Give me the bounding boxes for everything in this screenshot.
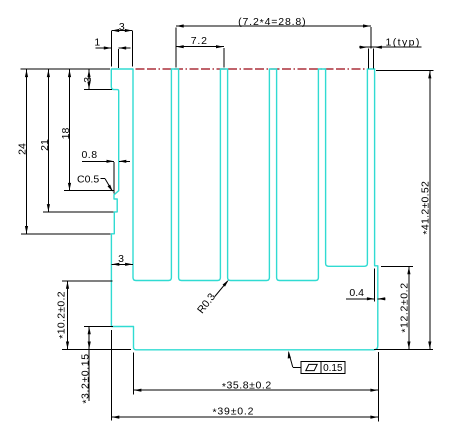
dim *35.8±0.2 (134, 352, 379, 422)
svg-text:(7.2*4=28.8): (7.2*4=28.8) (238, 16, 306, 29)
dim 24 (17, 69, 111, 234)
dim 0.4 (fin to edge step) (346, 269, 386, 302)
svg-text:3: 3 (118, 253, 124, 265)
dim 7.2 (fin pitch) (176, 28, 224, 68)
svg-text:1(typ): 1(typ) (386, 36, 421, 48)
dim 3 (tooth width, top) (111, 21, 132, 67)
svg-text:0.8: 0.8 (81, 149, 97, 161)
shared bottom-right extension (374, 348, 433, 350)
flatness feature control frame 0.15 (287, 351, 345, 375)
svg-text:*3.2±0.15: *3.2±0.15 (79, 353, 92, 403)
heatsink profile outline (111, 69, 378, 350)
dim 21 (39, 69, 114, 212)
svg-text:*10.2±0.2: *10.2±0.2 (56, 291, 69, 339)
svg-text:21: 21 (39, 139, 51, 151)
dim 3 (tooth height, left vertical) (21, 69, 113, 90)
leader R0.3 slot corner radius (195, 279, 230, 316)
dim *10.2±0.2 (56, 281, 131, 349)
svg-text:18: 18 (60, 128, 72, 140)
dim *3.2±0.15 (79, 326, 113, 403)
svg-text:*12.2±0.2: *12.2±0.2 (398, 282, 411, 332)
dim (7.2*4=28.8) overall fin span (176, 16, 371, 49)
dim 0.8 (wall thickness at groove) (81, 149, 130, 194)
svg-text:C0.5: C0.5 (77, 174, 99, 186)
dim 18 (60, 69, 114, 190)
dim 1(typ) fin thickness (359, 36, 422, 68)
dim *12.2±0.2 (381, 266, 413, 349)
svg-text:1: 1 (94, 36, 100, 48)
svg-text:0.4: 0.4 (349, 287, 364, 299)
dim 3 (left wall thickness, lower) (111, 253, 133, 266)
svg-text:R0.3: R0.3 (195, 291, 218, 316)
red datum centerline (136, 68, 365, 70)
svg-text:24: 24 (17, 143, 29, 155)
leader C0.5 chamfer (77, 174, 114, 193)
dim *39±0.2 (111, 330, 378, 421)
svg-text:*39±0.2: *39±0.2 (213, 405, 255, 418)
svg-text:*35.8±0.2: *35.8±0.2 (222, 380, 272, 393)
svg-text:3: 3 (119, 21, 125, 33)
dim 1 (tooth overhang) (94, 36, 130, 68)
svg-text:0.15: 0.15 (323, 363, 343, 374)
svg-text:*41.2±0.52: *41.2±0.52 (420, 181, 433, 235)
svg-text:7.2: 7.2 (191, 35, 208, 47)
svg-text:3: 3 (82, 77, 94, 83)
dim *41.2±0.52 (376, 71, 434, 350)
